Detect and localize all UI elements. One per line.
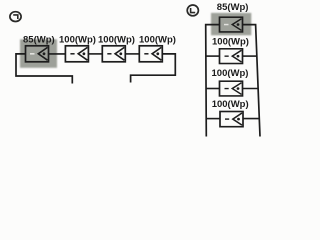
highlight patch over module PV1 (a) <box>20 39 57 68</box>
wire PV1-PV2 (a) <box>49 53 66 55</box>
PV module PV3 100Wp (a) <box>102 46 125 62</box>
wire PV6 left lead (b) <box>206 55 220 57</box>
wire PV2-PV3 (a) <box>88 53 102 55</box>
PV module PV2 100Wp (a) <box>65 46 88 62</box>
svg-text:100(Wp): 100(Wp) <box>59 34 96 45</box>
PV module PV7 100Wp (b) <box>220 81 243 96</box>
svg-text:100(Wp): 100(Wp) <box>139 34 176 45</box>
PV module PV6 100Wp (b) <box>220 49 243 64</box>
highlight patch over module PV5 (b) <box>211 13 251 35</box>
wire right rail (b) <box>242 25 260 137</box>
PV module PV5 85Wp (b) <box>220 17 243 32</box>
svg-text:100(Wp): 100(Wp) <box>212 99 249 110</box>
PV module PV8 100Wp (b) <box>220 112 243 127</box>
option label (b) circled mark <box>187 5 198 16</box>
wire PV7 right lead (b) <box>242 88 258 90</box>
wire PV6 right lead (b) <box>242 55 257 57</box>
wire positive lead right (a) <box>131 54 176 83</box>
svg-text:100(Wp): 100(Wp) <box>212 37 249 48</box>
PV module PV1 85Wp (a) <box>26 46 49 62</box>
svg-text:100(Wp): 100(Wp) <box>212 68 249 79</box>
wire PV3-PV4 (a) <box>125 53 139 55</box>
PV module PV4 100Wp (a) <box>139 46 162 62</box>
wire left rail (b) <box>206 25 220 137</box>
svg-text:85(Wp): 85(Wp) <box>217 2 249 13</box>
wire PV8 right lead (b) <box>243 118 259 120</box>
svg-text:100(Wp): 100(Wp) <box>98 34 135 45</box>
svg-text:85(Wp): 85(Wp) <box>23 34 55 45</box>
wire negative lead left (a) <box>16 54 72 84</box>
option label (a) circled mark <box>10 12 21 22</box>
wire PV8 left lead (b) <box>206 118 220 120</box>
wire PV7 left lead (b) <box>206 88 220 90</box>
